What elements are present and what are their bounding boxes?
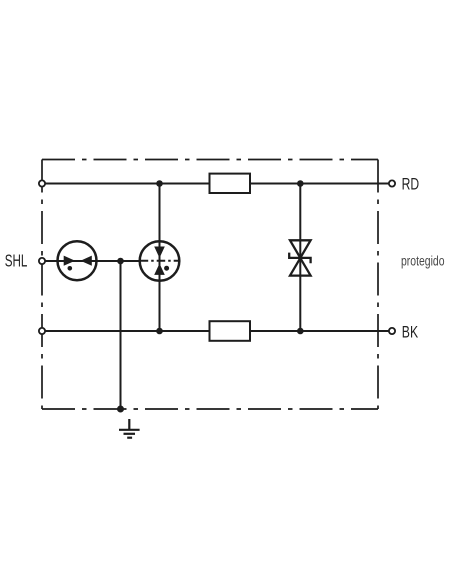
svg-text:BK: BK (402, 322, 419, 341)
svg-text:RD: RD (402, 174, 420, 193)
enclosure boundary right (377, 160, 379, 410)
wire ground vertical (120, 261, 122, 409)
junction top TVS (297, 180, 304, 187)
junction top GDT2 (156, 180, 163, 187)
terminal SHL (39, 258, 45, 264)
gas discharge tube F1 (58, 241, 97, 280)
suppressor diode (bidirectional TVS) (289, 240, 310, 275)
junction BK TVS (297, 328, 304, 335)
gas discharge tube F2 (140, 241, 180, 281)
wire TVS vertical (299, 184, 301, 332)
ground symbol (119, 419, 140, 438)
wire GDT2 vertical (159, 184, 161, 332)
wire RD line (42, 183, 389, 185)
junction ground at boundary (117, 406, 124, 413)
terminal BK left (39, 328, 45, 334)
wire BK line (42, 330, 389, 332)
enclosure boundary bottom (42, 408, 378, 410)
terminal RD right (389, 180, 395, 186)
terminal BK right (389, 328, 395, 334)
enclosure boundary left (41, 160, 43, 410)
terminal RD left (39, 180, 45, 186)
resistor R1 (210, 174, 251, 193)
svg-text:SHL: SHL (5, 251, 28, 271)
junction SHL / ground branch (117, 258, 124, 265)
svg-text:protegido: protegido (401, 254, 445, 269)
junction BK GDT2 (156, 328, 163, 335)
enclosure boundary top (42, 159, 378, 161)
wire SHL line (42, 260, 140, 262)
resistor R2 (210, 321, 251, 341)
